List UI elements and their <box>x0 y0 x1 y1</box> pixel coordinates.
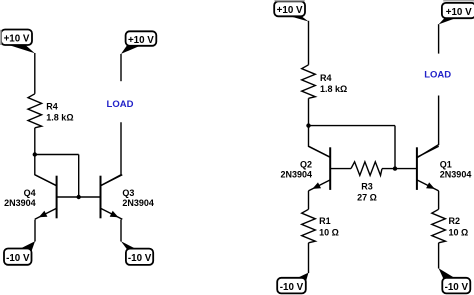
wire +10V to R4 (right circuit) <box>308 21 310 65</box>
transistor Q1 2N3904 <box>417 146 471 191</box>
junction node collector of Q2 <box>306 123 310 127</box>
svg-text:Q3: Q3 <box>122 188 134 198</box>
wire emitter of Q2 to R1 <box>308 191 310 209</box>
transistor Q3 2N3904 <box>101 175 154 220</box>
junction node bases Q4-Q3 <box>77 195 81 199</box>
svg-text:R3: R3 <box>361 182 373 192</box>
voltage source label -10 V (right circuit, right) <box>442 278 470 294</box>
pointer wedge to -10 V label (left circuit, right) <box>121 241 141 251</box>
wire middle branch down to base rail <box>78 155 80 198</box>
svg-text:R4: R4 <box>46 101 58 111</box>
voltage source label -10 V (right circuit, left) <box>277 278 306 294</box>
wire collector lead of Q2 <box>309 126 331 158</box>
svg-text:10 Ω: 10 Ω <box>449 227 469 237</box>
wire base rail Q4 to Q3 <box>57 196 101 198</box>
svg-text:10 Ω: 10 Ω <box>319 227 339 237</box>
wire R2 to -10 V <box>438 243 440 269</box>
resistor R4 1.8 k&#937; (right circuit) <box>302 65 348 99</box>
resistor R4 1.8 k&#937; (left circuit) <box>28 94 74 128</box>
wire node to middle branch <box>35 154 79 156</box>
voltage source label -10 V (left circuit, right) <box>126 249 153 265</box>
svg-text:LOAD: LOAD <box>424 70 451 81</box>
wire right branch down to base of Q1 <box>394 126 396 169</box>
svg-text:2N3904: 2N3904 <box>4 198 36 208</box>
cropped label remnant at top edge (right circuit, left) <box>275 0 305 2</box>
svg-text:Q2: Q2 <box>300 159 312 169</box>
wire emitter of Q4 down <box>34 220 36 242</box>
wire collector of Q1 up to LOAD <box>417 96 439 158</box>
svg-text:Q4: Q4 <box>24 188 36 198</box>
junction node collector of Q4 <box>33 152 37 156</box>
svg-text:+10 V: +10 V <box>277 5 303 16</box>
wire R3 to base of Q1 <box>382 168 417 170</box>
voltage source label +10 V (left circuit, left) <box>1 30 32 46</box>
svg-text:+10 V: +10 V <box>446 7 472 18</box>
wire node to right branch <box>309 125 396 127</box>
wire R4 to collector node <box>34 128 36 155</box>
svg-text:1.8 kΩ: 1.8 kΩ <box>320 84 347 94</box>
svg-text:-10 V: -10 V <box>6 253 30 264</box>
svg-text:2N3904: 2N3904 <box>440 170 472 180</box>
svg-text:+10 V: +10 V <box>4 34 30 45</box>
svg-text:R1: R1 <box>319 216 331 226</box>
pointer wedge to -10 V label (right circuit, left) <box>295 273 309 282</box>
voltage source label +10 V (right circuit, left) <box>274 1 305 16</box>
resistor R3 27 &#937; <box>351 162 382 203</box>
svg-text:2N3904: 2N3904 <box>122 198 154 208</box>
pointer wedge to +10 V label <box>8 45 35 54</box>
junction node base of Q1 <box>393 166 397 170</box>
svg-text:2N3904: 2N3904 <box>280 170 312 180</box>
svg-text:Q1: Q1 <box>440 159 452 169</box>
pointer wedge to +10 V label (right circuit, right) <box>439 18 457 25</box>
svg-text:1.8 kΩ: 1.8 kΩ <box>46 112 73 122</box>
svg-text:R4: R4 <box>320 73 332 83</box>
svg-text:-10 V: -10 V <box>445 282 469 293</box>
transistor Q2 2N3904 <box>280 146 330 191</box>
wire LOAD up to +10 V <box>120 54 122 81</box>
wire emitter of Q1 to R2 <box>438 191 440 209</box>
voltage source label +10 V (left circuit, right) <box>126 31 157 46</box>
svg-text:+10 V: +10 V <box>128 35 154 46</box>
svg-text:-10 V: -10 V <box>128 253 152 264</box>
pointer wedge to +10 V label (right circuit, left) <box>289 16 309 22</box>
pointer wedge to -10 V label (right circuit, right) <box>439 268 454 278</box>
wire collector of Q3 up to LOAD <box>101 122 122 186</box>
pointer wedge to +10 V label (left circuit, right) <box>121 45 141 54</box>
transistor Q4 2N3904 <box>4 175 57 220</box>
wire R1 to -10 V <box>308 243 310 273</box>
wire LOAD up to +10 V (right circuit) <box>438 24 440 53</box>
pointer wedge to -10 V label (left circuit, left) <box>19 241 35 251</box>
wire collector lead of Q4 <box>35 155 57 186</box>
svg-text:-10 V: -10 V <box>280 282 304 293</box>
svg-text:LOAD: LOAD <box>107 99 134 110</box>
cropped label remnant at top edge (right circuit, right) <box>443 0 474 2</box>
svg-text:27 Ω: 27 Ω <box>357 193 377 203</box>
cropped label remnant at left edge beside +10 V (left circuit) <box>0 30 2 45</box>
svg-text:R2: R2 <box>449 216 461 226</box>
voltage source label -10 V (left circuit, left) <box>4 249 32 265</box>
wire R4 to collector node (right circuit) <box>308 98 310 125</box>
wire base of Q2 to R3 <box>330 168 351 170</box>
wire +10V to R4 <box>34 53 36 94</box>
voltage source label +10 V (right circuit, right) <box>442 3 474 18</box>
wire emitter of Q3 down <box>120 220 122 242</box>
resistor R1 10 &#937; <box>302 209 339 243</box>
resistor R2 10 &#937; <box>432 209 468 243</box>
